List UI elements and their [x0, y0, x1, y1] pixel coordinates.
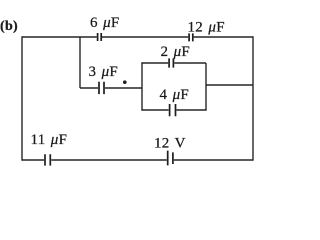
wire box right edge: [205, 63, 207, 110]
wire box left edge: [141, 63, 143, 110]
wire top: 6uF to 12uF: [102, 36, 188, 38]
svg-text:6 μF: 6 μF: [90, 15, 120, 31]
svg-text:11 μF: 11 μF: [31, 132, 68, 148]
battery V1 12V plates: [168, 151, 173, 166]
wire bottom: battery to right corner: [174, 159, 253, 161]
capacitor C6 11uF plates: [45, 154, 50, 165]
wire bottom: 11uF to battery: [51, 159, 167, 161]
wire 3uF right segment to box: [105, 87, 142, 89]
wire right vertical: [252, 36, 254, 160]
capacitor C1 6uF plates: [98, 33, 102, 41]
capacitor C4 3uF plates: [99, 82, 104, 94]
svg-text:(b): (b): [0, 19, 18, 34]
wire box top edge left of 2uF: [141, 62, 168, 64]
wire bottom: left corner to 11uF: [22, 159, 44, 161]
svg-text:12 μF: 12 μF: [188, 20, 225, 36]
wire top: 12uF to right corner: [194, 36, 253, 38]
wire branch vertical at x=80: [79, 37, 81, 88]
wire box bottom edge right of 4uF: [176, 109, 206, 111]
svg-text:2 μF: 2 μF: [161, 44, 191, 60]
wire box bottom edge left of 4uF: [141, 109, 168, 111]
capacitor C3 2uF plates: [169, 58, 173, 67]
wire top: left corner to 6uF left plate: [22, 36, 97, 38]
wire left vertical: [21, 36, 23, 160]
svg-text:4 μF: 4 μF: [160, 87, 190, 103]
capacitor C5 4uF plates: [170, 104, 176, 116]
svg-text:12 V: 12 V: [154, 136, 186, 152]
wire box to right vertical: [206, 84, 253, 86]
node dot near 3uF: [123, 80, 127, 84]
svg-text:3 μF: 3 μF: [89, 64, 119, 80]
capacitor C2 12uF plates: [189, 33, 193, 41]
wire 3uF left segment: [80, 87, 98, 89]
wire box top edge right of 2uF: [174, 62, 206, 64]
